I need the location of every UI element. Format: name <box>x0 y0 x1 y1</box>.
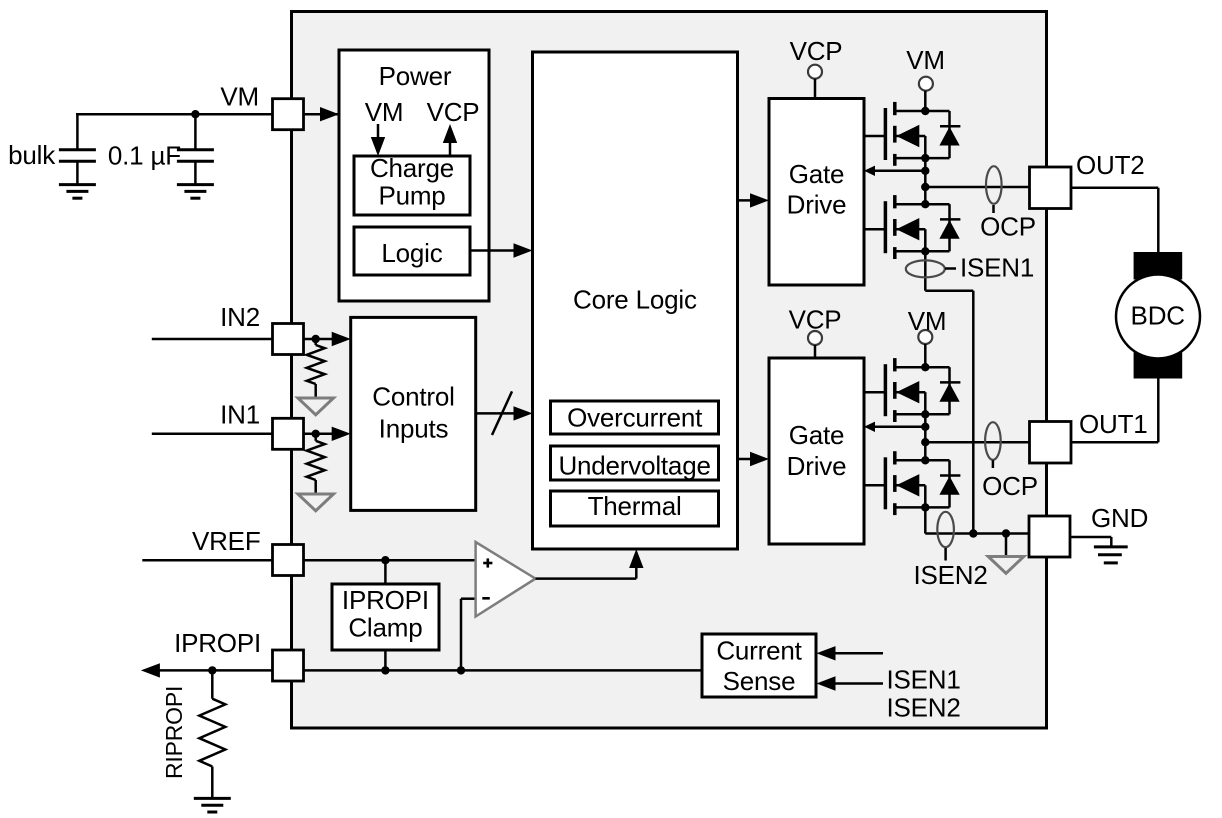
svg-text:OCP: OCP <box>982 471 1038 501</box>
svg-text:OUT1: OUT1 <box>1079 409 1148 439</box>
svg-text:Drive: Drive <box>787 190 847 220</box>
svg-text:VCP: VCP <box>789 305 842 335</box>
svg-text:ISEN1: ISEN1 <box>960 252 1034 282</box>
svg-text:ISEN2: ISEN2 <box>914 560 988 590</box>
svg-text:Inputs: Inputs <box>379 413 449 443</box>
svg-text:Core Logic: Core Logic <box>573 285 697 315</box>
svg-text:Current: Current <box>716 635 802 665</box>
svg-text:Clamp: Clamp <box>348 613 422 643</box>
svg-text:Overcurrent: Overcurrent <box>567 403 703 433</box>
svg-text:GND: GND <box>1091 503 1148 533</box>
svg-text:IPROPI: IPROPI <box>342 585 429 615</box>
svg-text:VREF: VREF <box>192 526 261 556</box>
svg-text:Gate: Gate <box>789 420 845 450</box>
svg-text:0.1 µF: 0.1 µF <box>108 141 181 171</box>
svg-text:Drive: Drive <box>787 451 847 481</box>
svg-text:Control: Control <box>372 382 454 412</box>
svg-text:ISEN1: ISEN1 <box>887 665 961 695</box>
svg-text:Gate: Gate <box>789 159 845 189</box>
svg-text:VM: VM <box>908 306 947 336</box>
svg-text:RIPROPI: RIPROPI <box>161 686 187 779</box>
svg-text:VCP: VCP <box>427 97 480 127</box>
svg-text:Logic: Logic <box>381 238 442 268</box>
svg-text:bulk: bulk <box>8 140 56 170</box>
svg-text:IN1: IN1 <box>220 400 260 430</box>
svg-text:Power: Power <box>379 61 452 91</box>
svg-text:IPROPI: IPROPI <box>174 628 261 658</box>
svg-text:BDC: BDC <box>1131 300 1185 330</box>
svg-text:VM: VM <box>906 45 945 75</box>
svg-text:OUT2: OUT2 <box>1076 150 1145 180</box>
svg-text:Pump: Pump <box>378 181 445 211</box>
svg-text:VM: VM <box>220 82 259 112</box>
svg-text:Charge: Charge <box>370 153 454 183</box>
svg-text:Thermal: Thermal <box>588 491 682 521</box>
svg-text:Undervoltage: Undervoltage <box>558 451 710 481</box>
svg-text:VM: VM <box>365 97 404 127</box>
svg-text:VCP: VCP <box>790 36 843 66</box>
svg-text:ISEN2: ISEN2 <box>887 693 961 723</box>
svg-text:OCP: OCP <box>980 211 1036 241</box>
svg-text:Sense: Sense <box>723 666 796 696</box>
svg-text:IN2: IN2 <box>220 302 260 332</box>
